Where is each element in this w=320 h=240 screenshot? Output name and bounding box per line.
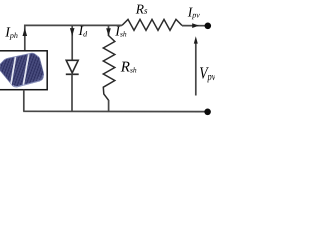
arrowhead Ish (down) (106, 28, 111, 36)
diode D1 (66, 60, 78, 73)
arrowhead Iph (up, on left wire) (23, 28, 28, 36)
bottom rail wire (23, 110, 205, 112)
top rail wire (left corner to Rs) (25, 25, 122, 50)
shunt branch top wire (108, 25, 110, 36)
busbar 2 (23, 53, 29, 87)
resistor Rs (122, 19, 182, 30)
arrowhead Ipv (192, 23, 199, 28)
node dot top-right terminal (205, 23, 212, 30)
cell bottom edge highlight (13, 76, 44, 87)
cell top edge highlight (1, 53, 38, 63)
arrowhead Id (down) (70, 28, 75, 36)
node dot bottom-right terminal (204, 109, 211, 116)
box around PV cell (0, 51, 47, 90)
diode branch top wire (71, 25, 73, 60)
resistor Rsh zigzag (103, 36, 115, 101)
diode branch bottom wire (71, 74, 73, 111)
wire Rs to output node (182, 25, 205, 27)
busbar 1 (10, 54, 16, 88)
shunt branch bottom wire (108, 100, 110, 111)
wire below box to bottom rail (23, 90, 25, 112)
PV cell photo (0, 50, 48, 90)
Vpv arrow (up) (195, 40, 197, 96)
